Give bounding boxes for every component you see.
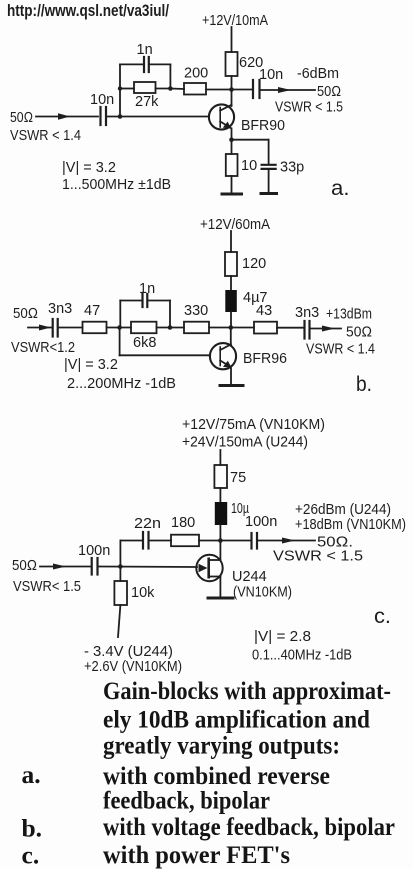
wire L4u7 to collector node [230,312,232,328]
capacitor 22n [142,532,144,549]
wire emitter to ground [230,369,232,386]
svg-text:3n3: 3n3 [295,305,319,321]
inductor 4u7 [225,290,237,312]
svg-text:+12V/75mA (VN10KM): +12V/75mA (VN10KM) [182,417,325,433]
wire feedback to 22n [120,540,141,542]
svg-text:+12V/60mA: +12V/60mA [200,217,270,233]
resistor 27k [134,82,156,93]
wire base feed vertical [119,328,121,356]
svg-text:1...500MHz ±1dB: 1...500MHz ±1dB [62,177,171,193]
wire R10 to ground [231,176,233,194]
svg-text:+13dBm: +13dBm [326,307,372,323]
svg-text:120: 120 [242,256,266,272]
svg-text:VSWR < 1.5: VSWR < 1.5 [273,549,363,565]
node feedback right [168,86,173,91]
wire drain node to 100n out [220,540,250,542]
transistor Q1 BFR90 [209,104,234,129]
svg-text:75: 75 [230,470,246,486]
svg-text:100n: 100n [245,514,277,530]
svg-text:22n: 22n [134,516,161,532]
svg-text:http://www.qsl.net/va3iul/: http://www.qsl.net/va3iul/ [7,2,169,20]
ground under U244 [208,597,233,600]
wire 1n branch top right [149,300,170,302]
svg-text:33p: 33p [280,160,304,176]
svg-text:BFR96: BFR96 [243,351,287,367]
svg-text:43: 43 [256,303,272,319]
resistor 180 [171,535,199,547]
wire 1n branch left vertical [119,301,121,328]
svg-text:330: 330 [184,303,208,319]
svg-text:VSWR< 1.5: VSWR< 1.5 [13,579,81,595]
capacitor 10n input [99,107,101,125]
wire output with arrow [261,89,315,91]
wire R200 to collector node [206,89,252,91]
node base junction [118,114,123,119]
capacitor 1n feedback [143,57,145,72]
svg-text:BFR90: BFR90 [241,118,285,134]
wire 27k left [120,88,134,90]
transistor U244 FET [196,555,222,581]
svg-text:0.1...40MHz -1dB: 0.1...40MHz -1dB [252,648,352,664]
svg-text:180: 180 [171,515,195,531]
svg-text:with voltage feedback, bipolar: with voltage feedback, bipolar [103,812,395,841]
resistor 620 [226,52,238,76]
resistor 43 [254,322,277,334]
node B [168,325,173,330]
svg-text:50Ω: 50Ω [317,84,341,100]
svg-text:+18dBm (VN10KM): +18dBm (VN10KM) [295,517,406,533]
wire R620 to collector node [231,76,233,90]
ground under 33p [261,192,277,195]
svg-text:+26dBm (U244): +26dBm (U244) [295,502,391,518]
capacitor 3n3 input [52,319,54,337]
svg-text:200: 200 [184,66,208,82]
svg-text:1n: 1n [137,42,153,58]
wire emitter down [231,129,233,140]
wire emitter to R10 [231,140,233,154]
node emitter [229,137,234,142]
svg-text:VSWR<1.2: VSWR<1.2 [11,340,75,356]
node A [117,325,122,330]
resistor 47 [83,322,107,334]
wire gate node to 10k [119,567,121,582]
svg-text:2...200MHz -1dB: 2...200MHz -1dB [67,376,176,392]
output wire with arrow [311,328,341,330]
svg-text:10: 10 [241,158,257,174]
svg-text:47: 47 [84,303,100,319]
resistor 200 [184,83,206,95]
svg-text:50Ω: 50Ω [13,306,38,322]
output wire with arrow [259,540,316,542]
wire base feed horizontal [120,354,210,356]
wire 6k8 to node B [157,327,185,329]
svg-text:|V| = 3.2: |V| = 3.2 [64,357,118,373]
transistor Q2 BFR96 [210,343,236,369]
wire node to R200 [170,88,184,91]
svg-text:VSWR < 1.5: VSWR < 1.5 [275,100,343,116]
capacitor 3n3 output [303,321,305,339]
input wire with arrow [28,327,51,329]
wire 27k right to node [156,88,171,90]
wire 22n to R180 [150,540,171,542]
svg-text:1n: 1n [139,281,155,297]
ground under Q2 [220,384,243,387]
input wire with arrow [40,566,90,568]
wire feedback right vertical [169,64,171,88]
node drain [218,538,223,543]
wire top branch left [120,63,143,65]
wire source to ground [219,577,221,598]
resistor 120 [225,252,237,276]
wire L10u to drain node [219,525,221,560]
resistor 10k [114,581,127,605]
svg-text:-6dBm: -6dBm [297,66,339,82]
svg-text:- 3.4V (U244): - 3.4V (U244) [84,644,173,660]
capacitor 100n input [91,558,93,575]
svg-text:c.: c. [374,605,391,628]
wire collector node down to transistor [231,90,233,107]
svg-text:b.: b. [356,373,372,396]
wire R75 to L10u [219,488,221,502]
wire 43 to 3n3 out [277,327,303,329]
wire emitter to 33p branch [232,139,269,141]
wire 3n3 to R47 [59,327,82,329]
wire gate line [99,566,197,569]
svg-text:10n: 10n [90,92,114,108]
svg-text:3n3: 3n3 [48,301,72,317]
capacitor 100n output [250,533,252,549]
wire 1n branch right vertical [169,301,171,328]
wire feedback vertical [119,541,121,567]
capacitor 10n output [252,80,254,98]
wire R120 to L4u7 [230,276,232,290]
svg-text:a.: a. [331,177,350,200]
svg-text:feedback, bipolar: feedback, bipolar [103,786,270,815]
capacitor 1n [141,294,143,307]
wire collector down [230,328,232,345]
svg-text:|V| = 3.2: |V| = 3.2 [62,160,116,176]
wire 10k to bias [118,605,120,637]
wire base line [108,116,210,118]
svg-text:+24V/150mA (U244): +24V/150mA (U244) [182,435,308,451]
svg-text:c.: c. [22,841,40,869]
svg-text:VSWR < 1.4: VSWR < 1.4 [306,342,375,358]
svg-text:50Ω: 50Ω [12,558,37,574]
svg-text:6k8: 6k8 [133,335,156,351]
svg-text:+12V/10mA: +12V/10mA [202,13,268,29]
inductor 10u [215,502,227,525]
resistor 10 emitter [226,154,238,176]
wire R180 to drain node [199,540,220,542]
node gate [118,564,123,569]
wire R47 to node A [107,327,132,329]
svg-text:U244: U244 [232,569,267,585]
svg-text:with power FET's: with power FET's [103,840,290,869]
svg-text:100n: 100n [78,543,110,559]
svg-text:|V| = 2.8: |V| = 2.8 [254,629,311,645]
svg-text:50Ω: 50Ω [10,110,33,126]
node feedback left mid [118,86,122,90]
svg-text:Gain-blocks with approximat-: Gain-blocks with approximat- [103,676,391,705]
svg-text:VSWR < 1.4: VSWR < 1.4 [10,128,81,144]
resistor 75 [214,465,227,488]
ground under R10 [222,193,242,196]
svg-text:(VN10KM): (VN10KM) [233,585,292,601]
wire 33p to ground [268,169,270,193]
svg-text:10n: 10n [259,67,283,83]
svg-text:greatly varying outputs:: greatly varying outputs: [103,731,340,760]
resistor 330 [184,322,209,334]
wire supply to R120 [230,231,232,252]
svg-text:+2.6V (VN10KM): +2.6V (VN10KM) [84,659,182,675]
wire supply to R75 [219,450,221,465]
input wire with arrow [36,116,98,118]
svg-text:50Ω: 50Ω [346,325,372,341]
wire feedback left vertical [119,64,121,116]
svg-text:27k: 27k [135,94,159,110]
resistor 6k8 [131,322,157,334]
svg-text:ely 10dB amplification and: ely 10dB amplification and [103,705,370,734]
wire 1n branch top left [120,300,141,302]
node collector A [229,87,234,92]
svg-text:10k: 10k [131,585,155,601]
svg-text:a.: a. [22,760,41,789]
capacitor 33p [262,164,276,166]
wire top branch right [150,63,170,65]
wire 330 to node C [209,327,254,329]
svg-text:b.: b. [22,814,43,843]
wire supply to R620 [231,27,233,52]
node C collector [229,325,234,330]
